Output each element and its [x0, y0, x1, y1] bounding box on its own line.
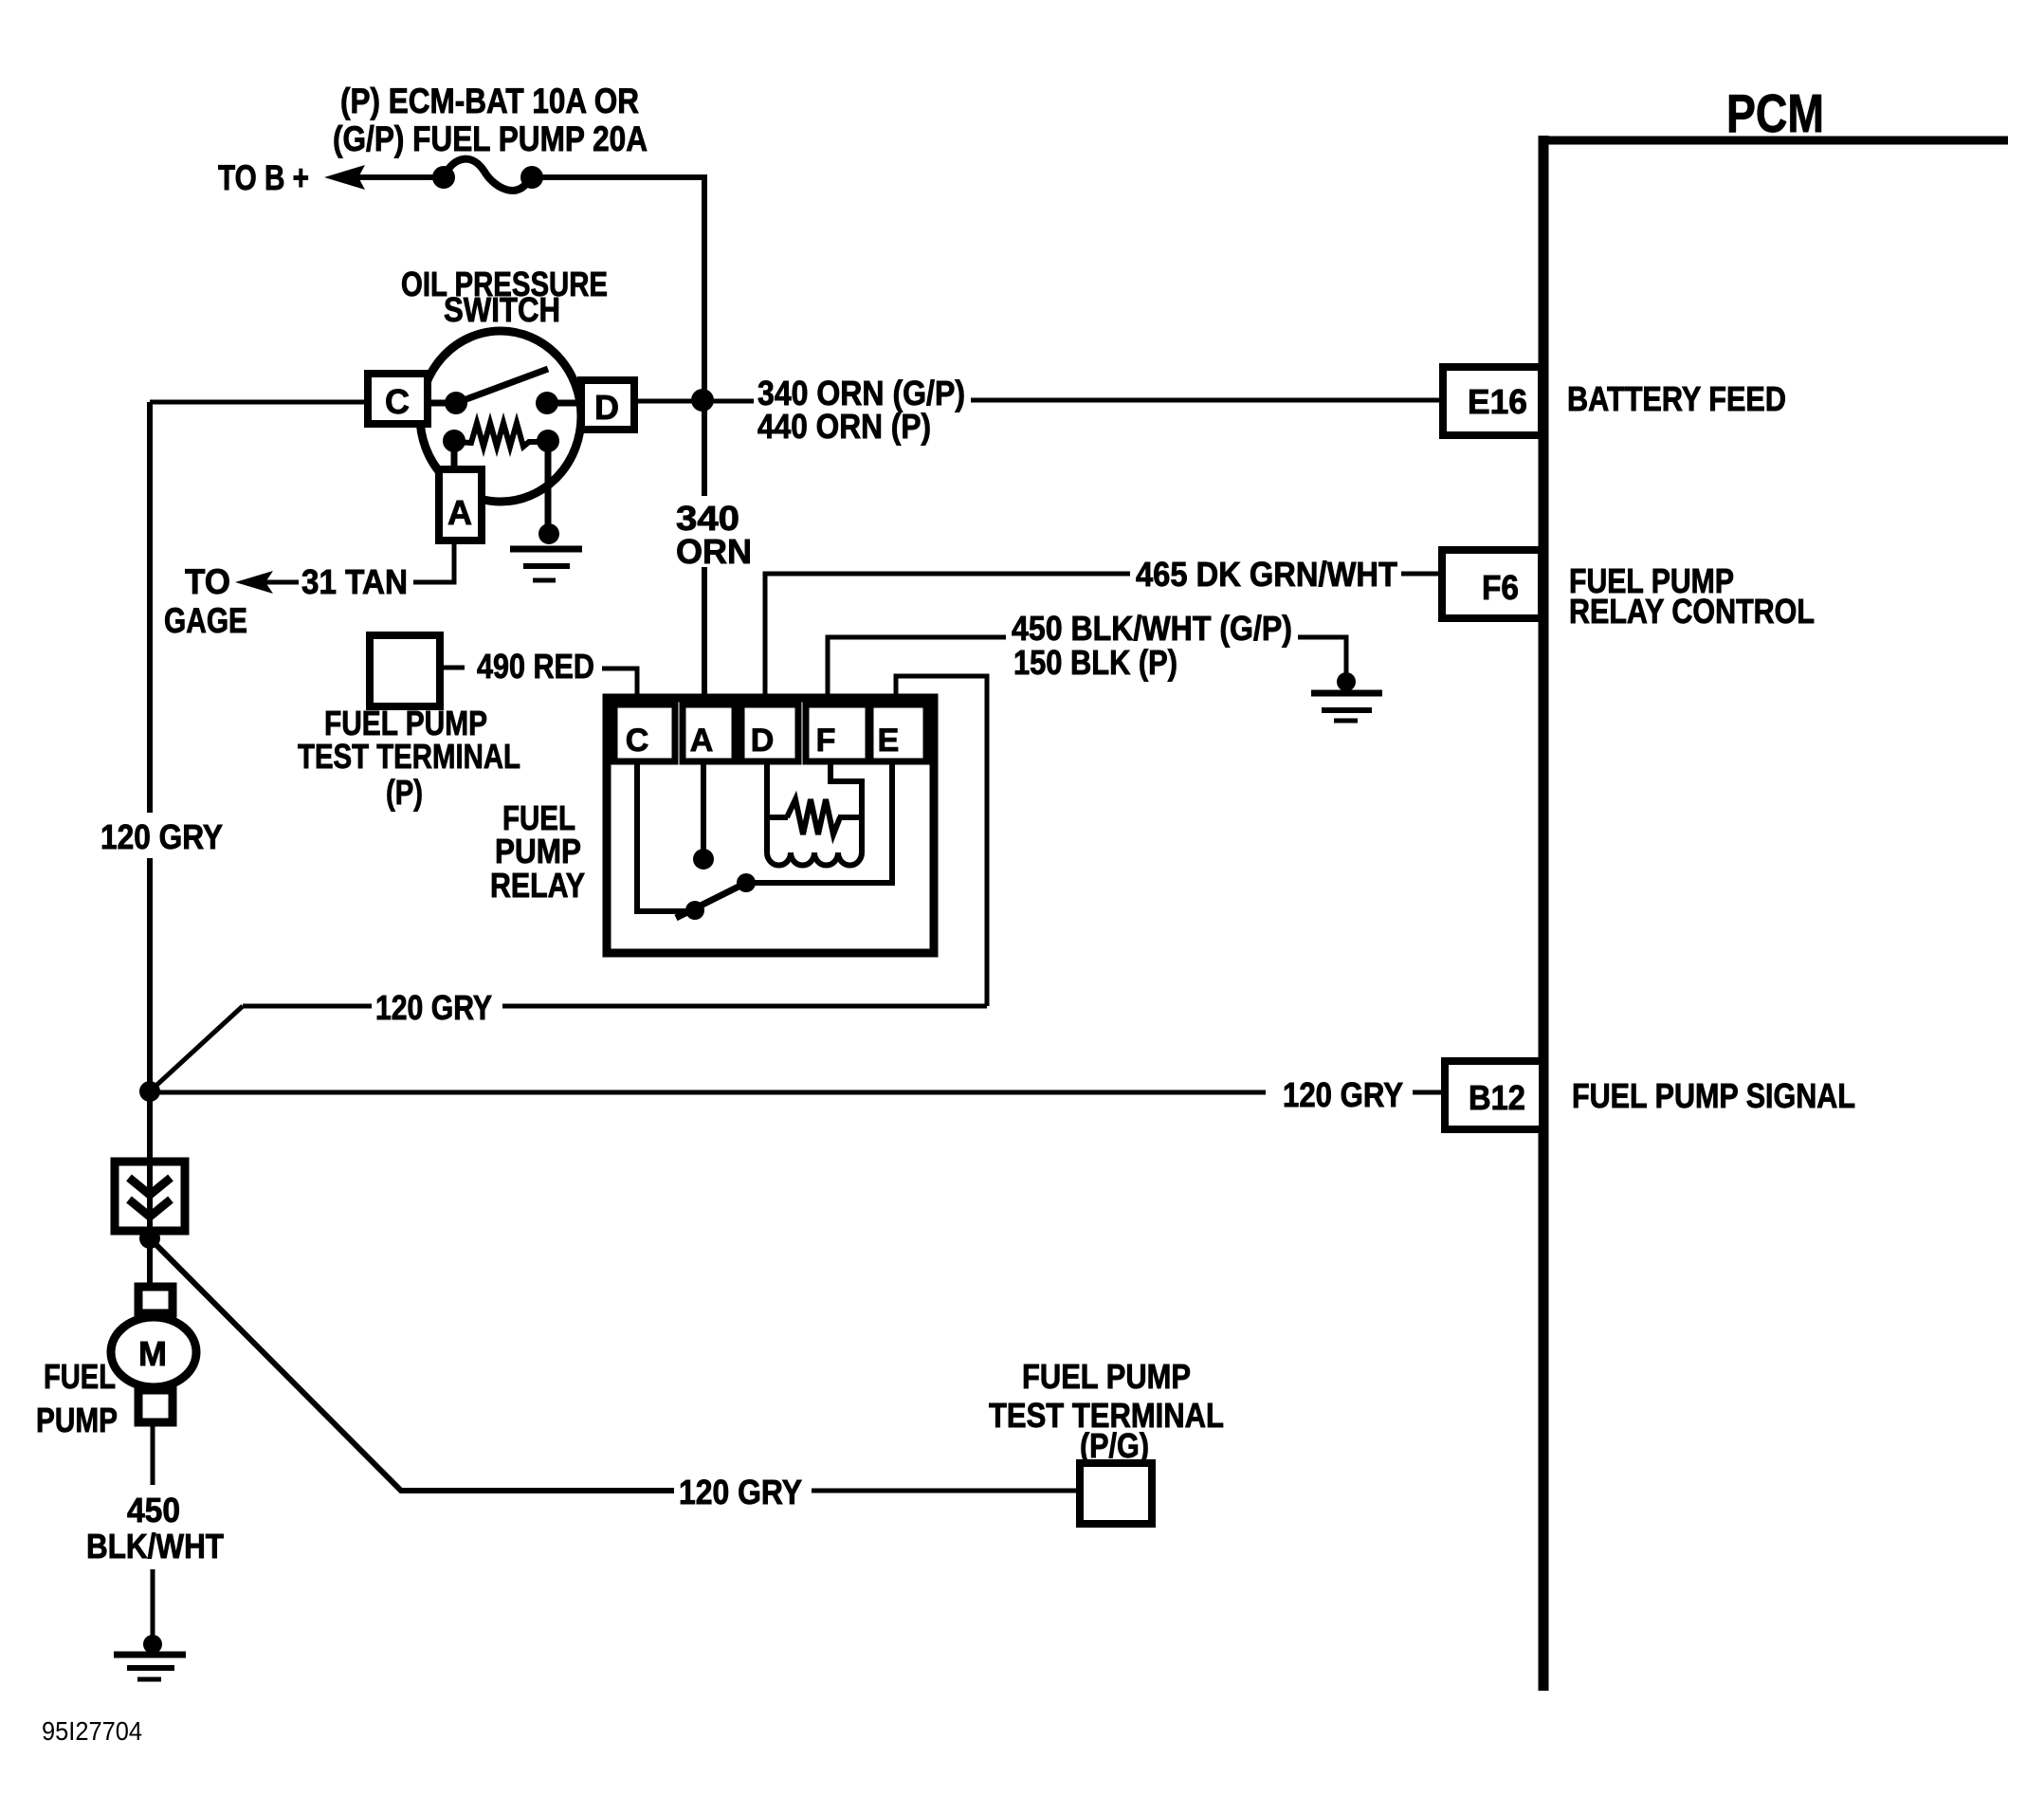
fuse label (P) ECM-BAT 10A OR (G/P) FUEL PUMP 20A [333, 82, 648, 158]
oil pressure switch S1 body [420, 331, 581, 502]
svg-text:BATTERY FEED: BATTERY FEED [1567, 379, 1786, 418]
fuse F1 ECM-BAT/FUEL PUMP [432, 159, 543, 191]
fuel pump relay K1 outer box [607, 698, 934, 953]
fuel pump test terminal (P/G) square [1080, 1463, 1152, 1524]
wire left vertical 120 GRY [147, 402, 153, 1162]
wire C terminal to left vertical [150, 400, 370, 405]
label OIL PRESSURE SWITCH [401, 265, 608, 329]
wire 120 GRY into bottom test terminal [812, 1489, 1080, 1493]
relay inner wire C [637, 763, 688, 911]
wire fuse to 340 ORN vertical [532, 177, 704, 496]
svg-text:F6: F6 [1482, 568, 1519, 607]
wire A terminal to 31 TAN [413, 540, 454, 582]
relay coil humps [767, 817, 862, 866]
svg-text:ORN: ORN [676, 532, 752, 571]
relay terminal C box [614, 705, 675, 761]
svg-text:490 RED: 490 RED [477, 647, 594, 686]
svg-text:120 GRY: 120 GRY [1283, 1075, 1403, 1114]
relay switch blade [676, 883, 746, 918]
wire 450 BLK/WHT from relay F [828, 637, 1006, 703]
wire 465 DK GRN/WHT from relay D to F6 [765, 574, 1130, 703]
label 340 ORN (G/P) / 440 ORN (P) [757, 374, 965, 446]
relay coil resistor [764, 799, 865, 834]
svg-text:M: M [138, 1334, 167, 1373]
svg-text:150 BLK (P): 150 BLK (P) [1013, 643, 1177, 682]
svg-text:120 GRY: 120 GRY [375, 988, 492, 1027]
svg-text:120 GRY: 120 GRY [679, 1473, 802, 1511]
junction dot 340 ORN [691, 389, 714, 412]
wire connector to motor [147, 1231, 153, 1286]
wire dash into F6 [1401, 572, 1438, 577]
svg-text:B12: B12 [1469, 1078, 1525, 1117]
svg-text:120 GRY: 120 GRY [100, 817, 223, 856]
svg-text:450: 450 [127, 1491, 180, 1529]
svg-text:GAGE: GAGE [164, 601, 247, 640]
junction dot fuel pump signal [139, 1081, 160, 1102]
svg-text:SWITCH: SWITCH [444, 290, 560, 329]
svg-text:450 BLK/WHT (G/P): 450 BLK/WHT (G/P) [1012, 609, 1292, 648]
PCM vertical line [1539, 136, 1549, 1691]
wire 340 ORN vertical lower segment [702, 567, 707, 703]
ground fuel pump [114, 1635, 186, 1679]
relay terminal E box [870, 705, 926, 761]
wire 450 BLK/WHT to ground [151, 1569, 155, 1638]
svg-text:PUMP: PUMP [36, 1401, 118, 1439]
svg-text:RELAY CONTROL: RELAY CONTROL [1569, 592, 1815, 631]
inline connector to fuel pump [115, 1162, 185, 1231]
label FUEL PUMP RELAY CONTROL [1569, 561, 1815, 631]
fuel pump motor M1 [111, 1287, 196, 1422]
relay terminal F box [806, 705, 868, 761]
wire 340 ORN to E16 [971, 398, 1443, 403]
svg-text:31 TAN: 31 TAN [301, 562, 408, 601]
relay inner wire A [701, 763, 706, 853]
label TO GAGE with arrow [164, 562, 299, 640]
wire motor to 450 BLK/WHT [151, 1426, 155, 1485]
svg-text:A: A [690, 723, 714, 759]
wire 120 GRY middle label line [150, 1006, 987, 1091]
wire 450 BLK/WHT to ground [1298, 637, 1346, 673]
svg-text:C: C [626, 723, 649, 759]
ground for 450 BLK/WHT [1311, 672, 1382, 721]
svg-text:E16: E16 [1468, 382, 1527, 421]
relay terminal A box [683, 705, 735, 761]
oil pressure switch blade [456, 369, 548, 403]
svg-text:TO B +: TO B + [218, 158, 309, 197]
PCM top line [1539, 137, 2008, 145]
oil pressure switch contact dots [445, 392, 467, 414]
label FUEL PUMP motor [36, 1357, 118, 1439]
svg-text:(G/P) FUEL PUMP 20A: (G/P) FUEL PUMP 20A [333, 119, 648, 158]
svg-text:PCM: PCM [1726, 83, 1824, 144]
svg-text:RELAY: RELAY [490, 866, 585, 905]
relay switch contacts [685, 901, 704, 920]
terminal C box [368, 374, 428, 424]
svg-text:(P) ECM-BAT 10A OR: (P) ECM-BAT 10A OR [340, 82, 639, 120]
PCM pin F6 box [1442, 550, 1542, 618]
wire dash into B12 [1413, 1090, 1441, 1095]
wire stubs at contacts [420, 400, 456, 407]
wire arrow to B+ [324, 165, 444, 190]
terminal A box [439, 469, 482, 540]
relay coil wire from F [830, 763, 862, 817]
PCM pin B12 box [1445, 1061, 1542, 1129]
label 450 BLK/WHT (G/P) / 150 BLK (P) [1012, 609, 1292, 682]
svg-text:FUEL PUMP SIGNAL: FUEL PUMP SIGNAL [1572, 1076, 1855, 1115]
relay coil wire from D [764, 763, 770, 817]
relay inner wire to E [746, 763, 892, 883]
ground under oil pressure switch [510, 523, 582, 580]
wire lower-left contact to A terminal [451, 441, 458, 474]
wire test terminal to 490 RED [440, 666, 465, 670]
fuel pump test terminal (P) square [370, 635, 440, 706]
wire 490 RED to relay C [602, 669, 637, 703]
label 340 ORN vertical [676, 499, 752, 571]
svg-text:D: D [594, 388, 619, 427]
wire D terminal to junction [633, 399, 754, 404]
PCM pin E16 box [1443, 367, 1542, 435]
terminal D box [581, 380, 634, 430]
svg-text:F: F [816, 723, 836, 759]
label FUEL PUMP TEST TERMINAL (P) [298, 704, 520, 812]
wire 120 GRY to B12 [150, 1090, 1266, 1095]
relay terminal D box [741, 705, 798, 761]
svg-text:E: E [878, 723, 900, 759]
svg-text:FUEL PUMP: FUEL PUMP [1022, 1357, 1191, 1396]
svg-text:465 DK GRN/WHT: 465 DK GRN/WHT [1136, 555, 1397, 594]
wire diagonal 120 GRY to test terminal [150, 1238, 674, 1491]
svg-text:PUMP: PUMP [495, 832, 581, 870]
svg-text:(P/G): (P/G) [1080, 1426, 1149, 1465]
svg-text:TEST TERMINAL: TEST TERMINAL [298, 737, 520, 776]
svg-text:BLK/WHT: BLK/WHT [86, 1527, 224, 1566]
label FUEL PUMP RELAY [490, 798, 585, 905]
oil pressure switch sender resistor [456, 423, 548, 447]
svg-text:95I27704: 95I27704 [42, 1716, 142, 1746]
svg-text:C: C [385, 382, 410, 421]
svg-text:D: D [751, 723, 775, 759]
label FUEL PUMP TEST TERMINAL (P/G) [989, 1357, 1224, 1465]
svg-text:440 ORN (P): 440 ORN (P) [757, 407, 931, 446]
svg-text:FUEL: FUEL [44, 1357, 116, 1396]
svg-text:A: A [447, 493, 472, 532]
wire lower-right contact to ground [545, 441, 552, 531]
wire relay E up over and down [896, 676, 987, 1006]
label 450 BLK/WHT bottom [86, 1491, 224, 1566]
connector junction dot [139, 1228, 160, 1249]
svg-text:(P): (P) [386, 773, 423, 812]
svg-text:TO: TO [185, 562, 230, 601]
